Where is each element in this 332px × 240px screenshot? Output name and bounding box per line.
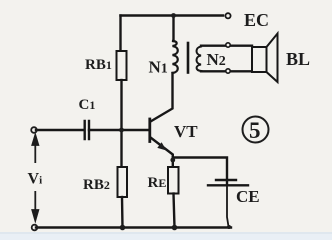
label C1 <box>79 97 96 113</box>
node top rail / N1 <box>171 13 176 18</box>
bottom scan band <box>0 233 332 240</box>
transformer core <box>187 43 190 73</box>
speaker BL <box>252 34 278 83</box>
wire: emitter node to RE <box>172 158 174 168</box>
terminal input bottom <box>32 225 38 231</box>
label RB2 <box>83 177 110 193</box>
wire: base node to RB2 <box>120 130 122 167</box>
transistor VT base bar <box>148 119 151 142</box>
wire: N2 bottom lead to speaker <box>201 70 252 72</box>
wire: top rail EC <box>121 14 224 16</box>
wire: RE bottom lead <box>174 194 175 228</box>
resistor RE <box>168 167 179 194</box>
node base <box>119 128 124 133</box>
svg-text:5: 5 <box>249 118 261 143</box>
input arrow up <box>32 135 38 163</box>
wire: CE bottom lead <box>227 185 229 226</box>
wire: emitter rail to CE <box>173 158 227 186</box>
emitter arrow <box>157 142 166 150</box>
capacitor CE <box>208 180 248 185</box>
svg-text:C1: C1 <box>79 97 96 113</box>
node ground RB2 <box>120 225 126 231</box>
svg-text:EC: EC <box>244 10 269 30</box>
label VT <box>174 122 198 141</box>
svg-text:RB1: RB1 <box>85 57 112 73</box>
label RE <box>148 175 167 191</box>
svg-text:BL: BL <box>286 49 310 69</box>
label BL <box>286 49 310 69</box>
wire: ground rail <box>36 226 231 228</box>
svg-text:RE: RE <box>148 175 167 191</box>
svg-text:VT: VT <box>174 122 198 141</box>
node emitter <box>170 158 175 163</box>
wire: RB1 bottom lead to base node <box>120 80 122 130</box>
wire: input to C1 <box>36 129 83 131</box>
label Vi <box>28 171 43 188</box>
terminal N2 top <box>226 43 230 47</box>
inductor N2 secondary <box>197 47 202 72</box>
wire: RB1 top lead <box>119 16 121 52</box>
node ground RE <box>172 225 178 231</box>
capacitor C1 <box>85 121 89 139</box>
figure number 5 <box>243 117 269 143</box>
svg-text:RB2: RB2 <box>83 177 110 193</box>
wire: collector lead <box>151 73 173 122</box>
wire: N2 top lead to speaker <box>201 45 252 47</box>
resistor RB1 <box>117 51 127 80</box>
svg-text:CE: CE <box>236 187 260 206</box>
node ground CE <box>227 225 231 229</box>
terminal input top <box>31 127 37 133</box>
terminal EC <box>225 13 230 18</box>
label N2 <box>207 50 226 69</box>
wire: emitter lead <box>151 138 173 158</box>
inductor N1 primary <box>173 41 178 73</box>
label CE <box>236 187 260 206</box>
label N1 <box>149 58 168 77</box>
wire: N1 to top rail <box>172 16 174 42</box>
wire: RB2 bottom lead <box>121 197 124 228</box>
input arrow down <box>32 191 38 221</box>
wire: C1 to base <box>89 129 149 131</box>
terminal N2 bottom <box>226 69 230 73</box>
label EC <box>244 10 269 30</box>
resistor RB2 <box>118 167 128 197</box>
label RB1 <box>85 57 112 73</box>
